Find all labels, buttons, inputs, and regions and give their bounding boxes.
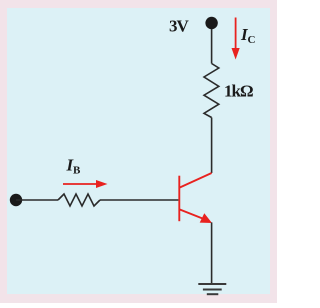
base resistor (horizontal zigzag) — [58, 194, 100, 206]
wire: node to resistor top — [211, 29, 213, 64]
wire: resistor bottom to transistor collector — [211, 118, 213, 174]
base bar — [178, 176, 180, 222]
wire: emitter to ground — [211, 222, 213, 284]
current arrow IB — [63, 180, 108, 188]
svg-text:B: B — [73, 165, 81, 177]
blue panel — [7, 8, 270, 294]
collector lead — [180, 173, 212, 188]
wire: resistor to base — [100, 199, 178, 201]
wire: terminal to base resistor — [16, 199, 58, 201]
emitter arrowhead — [200, 213, 212, 223]
emitter lead — [180, 210, 207, 221]
current arrow IC — [232, 18, 240, 60]
input terminal dot — [10, 194, 22, 206]
svg-text:C: C — [248, 34, 256, 46]
resistor 1kOhm (vertical zigzag) — [204, 64, 219, 118]
svg-text:3V: 3V — [169, 17, 190, 36]
ground — [198, 284, 226, 294]
svg-text:1kΩ: 1kΩ — [224, 82, 253, 101]
transistor Q1 (NPN, red) — [179, 173, 211, 221]
node: 3V supply terminal dot — [205, 17, 217, 29]
